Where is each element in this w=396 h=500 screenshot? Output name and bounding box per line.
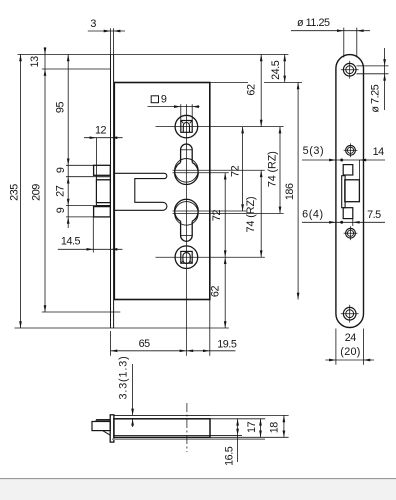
centre line upper follower [156, 126, 284, 128]
lower follower square hole [181, 251, 192, 263]
dimension 209 [44, 305, 47, 312]
svg-text:16.5: 16.5 [224, 446, 236, 466]
extension faceplate thickness right [113, 28, 115, 54]
extension square hole left [180, 104, 182, 120]
svg-text:95: 95 [55, 102, 67, 114]
svg-text:18: 18 [269, 422, 281, 434]
upper cylinder hole PZ outline [175, 162, 199, 184]
dimension dia 11.25 [343, 28, 345, 58]
latch top guide block [343, 165, 353, 175]
extension line faceplate top [18, 53, 289, 55]
dimension 74 (RZ) lower [260, 170, 262, 257]
svg-text:14: 14 [373, 146, 385, 158]
upper fixing clip [94, 165, 111, 175]
dimension 9 upper [67, 177, 70, 184]
centre line upper cylinder PZ [173, 172, 229, 174]
dimension 186 (case height) [297, 82, 299, 299]
svg-text:17: 17 [246, 421, 258, 433]
latch bottom guide block [343, 208, 353, 219]
latch slide plate [342, 176, 345, 208]
svg-text:13: 13 [29, 56, 41, 68]
lower follower circle [175, 246, 198, 269]
dimension 24.5 [284, 54, 286, 82]
svg-text:9: 9 [55, 207, 67, 213]
svg-text:74 (RZ): 74 (RZ) [266, 151, 278, 187]
upper fixing hole [346, 145, 356, 155]
svg-text:12: 12 [95, 125, 107, 137]
svg-text:ø 11.25: ø 11.25 [297, 17, 330, 29]
svg-text:235: 235 [8, 184, 20, 201]
dimension 3.3(1.3) [132, 364, 134, 415]
dimension 62 lower [224, 257, 227, 264]
bottom view: clip nub [92, 422, 110, 431]
dimension 235 [20, 54, 22, 328]
dimension 19.5 [186, 349, 193, 352]
centre line lower cylinder RZ [173, 212, 284, 214]
centre line bottom view [186, 403, 188, 452]
dimension 5(3) and 14 [302, 159, 385, 161]
svg-text:62: 62 [210, 286, 222, 298]
svg-text:6(4): 6(4) [302, 209, 324, 221]
svg-text:9: 9 [55, 167, 67, 173]
faceplate (Stulp) edge view, main view [110, 54, 112, 328]
dimension 13 [44, 47, 46, 312]
extension line clip front [92, 217, 94, 253]
svg-text:62: 62 [246, 84, 258, 96]
extension line bottom screw position [42, 311, 121, 313]
svg-text:5(3): 5(3) [303, 145, 325, 157]
dimension 24 (20) faceplate width [335, 329, 337, 365]
svg-text:65: 65 [139, 338, 151, 350]
extension faceplate to 65 dim [110, 331, 112, 356]
dimension 14.5 (clip protrusion) [58, 248, 123, 250]
lower fixing clip [94, 207, 111, 217]
svg-text:(20): (20) [340, 346, 360, 358]
svg-text:14.5: 14.5 [61, 236, 81, 248]
vertical centre line of holes [185, 104, 187, 356]
svg-text:24.5: 24.5 [270, 60, 282, 80]
latch bolt [345, 180, 360, 202]
dimension 62 top [260, 54, 262, 126]
bottom view: grey base line [112, 438, 265, 440]
dimension 17 [260, 419, 262, 438]
extension clip joint lower [66, 205, 96, 207]
bottom countersunk screw hole [343, 307, 356, 320]
extension line faceplate bottom [15, 327, 229, 329]
upper cylinder hole RZ circle thin [175, 159, 199, 183]
extension line top screw position [42, 68, 111, 70]
dimension 74 (RZ) upper [279, 127, 281, 214]
upper follower circle [175, 115, 198, 138]
svg-text:7.5: 7.5 [367, 209, 381, 221]
lock case body [114, 83, 210, 300]
dimension 9 lower [67, 217, 70, 224]
svg-text:3.3(1.3): 3.3(1.3) [118, 355, 130, 399]
bottom view: case from below [114, 414, 210, 416]
svg-text:72: 72 [230, 165, 242, 177]
svg-text:186: 186 [284, 183, 296, 200]
lower bracket step [96, 203, 110, 206]
lower cylinder stem [181, 221, 193, 241]
dimension 27 [67, 199, 70, 206]
dimension square 9 (follower) [148, 106, 200, 108]
lower cylinder hole RZ circle thin [175, 202, 199, 226]
dimension dia 7.25 [357, 65, 389, 67]
light grey footer band [0, 479, 396, 500]
dimension 6(4) and 7.5 [302, 221, 385, 223]
diagonal edge [103, 431, 111, 436]
extension faceplate thickness left [110, 28, 112, 54]
svg-text:209: 209 [31, 184, 43, 201]
dimension 95 [67, 54, 69, 228]
centre line lower follower [156, 256, 265, 258]
middle bracket [96, 180, 110, 203]
spring clip in upper follower [183, 123, 189, 133]
upper follower square hole 9mm [181, 121, 192, 133]
dimension 12 (bracket protrusion) [84, 137, 123, 139]
svg-text:3: 3 [90, 18, 96, 30]
extension line case top right [210, 81, 248, 83]
faceplate front view outline [336, 55, 364, 328]
centre line upper cylinder RZ [173, 169, 265, 171]
svg-text:27: 27 [55, 185, 67, 197]
extension clip joint upper [66, 176, 96, 178]
spring clip in lower follower [183, 253, 190, 264]
svg-text:19.5: 19.5 [217, 339, 237, 351]
svg-text:24: 24 [345, 332, 357, 344]
lower cylinder hole PZ outline [175, 199, 199, 221]
bottom view: faceplate bar [110, 415, 114, 442]
top countersunk screw hole [343, 63, 356, 76]
dimension 72 upper [242, 127, 244, 211]
dimension 3 (faceplate thickness) [88, 30, 125, 32]
fork-shaped cutout in case [114, 173, 167, 210]
extension case back to 19.5 dim [209, 300, 211, 356]
dimension 16.5 [237, 419, 239, 462]
svg-text:74 (RZ): 74 (RZ) [245, 197, 257, 233]
svg-text:ø 7.25: ø 7.25 [370, 84, 382, 112]
dimension 72 lower [224, 173, 226, 328]
extension square hole right [191, 104, 193, 120]
svg-text:72: 72 [211, 210, 223, 222]
extension line bracket front [95, 138, 97, 177]
page divider line [0, 478, 396, 480]
svg-text:9: 9 [161, 93, 167, 105]
upper cylinder stem [181, 144, 193, 162]
upper bracket step [96, 177, 110, 180]
extension clip bottom [66, 216, 94, 218]
centre line lower cylinder PZ [173, 210, 247, 212]
extension clip top [66, 164, 94, 166]
dimension 18 [283, 415, 285, 437]
dimension 65 (backset) [111, 350, 236, 352]
lower fixing hole [346, 228, 356, 238]
